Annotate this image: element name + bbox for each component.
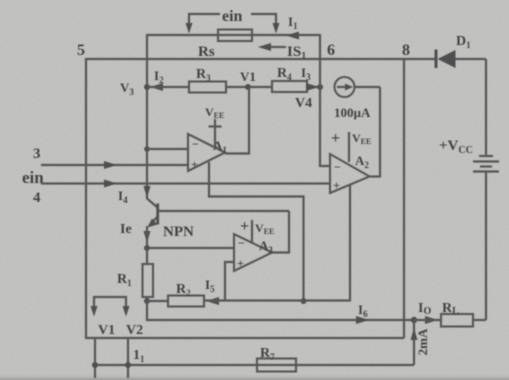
svg-text:ein: ein [22, 168, 44, 187]
svg-text:−: − [238, 236, 245, 250]
wire: V2 measurement column [127, 337, 129, 378]
arrow on terminal 3 line [104, 161, 117, 169]
IS1 annotation arrow [258, 43, 286, 51]
wire: R4 to node at current source [307, 86, 320, 88]
Io node junction dot [411, 317, 417, 323]
wire: node 6 column from Rs corner down to A2 inverting input [320, 34, 330, 166]
svg-text:V1: V1 [240, 69, 256, 84]
svg-text:3: 3 [33, 146, 41, 162]
op-amp A2 [330, 154, 370, 193]
current I4 arrow on V3 column [144, 186, 151, 198]
current I2 arrow [150, 83, 163, 91]
wire: A3 + input tap to I5 line [225, 262, 234, 301]
battery +Vcc [473, 156, 499, 172]
wire: A2 bottom tap down to I5 line [349, 185, 351, 301]
junction dot at R1 bottom [144, 298, 150, 304]
wire: R1 node to R2 [147, 300, 168, 302]
svg-text:8: 8 [402, 42, 410, 59]
svg-text:100µA: 100µA [334, 105, 371, 120]
current source 100uA [335, 77, 355, 97]
wire: R1 bottom stub [146, 297, 148, 301]
svg-text:+: + [333, 178, 340, 192]
svg-text:6: 6 [327, 42, 335, 59]
svg-text:+: + [331, 130, 340, 147]
wire: I6 line from R1 node to Io node [147, 301, 414, 320]
wire: right rail from diode to battery [485, 59, 487, 156]
wire: A1 output up to node V1 [225, 87, 249, 154]
op-amp A3 [234, 234, 272, 271]
resistor R2 [168, 296, 204, 307]
wire: emitter node down to R1 [146, 248, 148, 264]
junction dot on V3 column for A1 inverting input [144, 146, 150, 152]
svg-text:2mA: 2mA [415, 328, 430, 355]
wire: input line from terminal 4 to A2 + input [41, 182, 331, 184]
A1 VEE supply [209, 119, 222, 146]
wire: V3 node to R3 [147, 86, 189, 88]
wire: input line from terminal 3 to A1 + input [41, 164, 188, 166]
resistor R1 [143, 264, 154, 297]
wire: right rail from battery down to RL [485, 172, 487, 321]
resistor R3 [189, 82, 226, 93]
wire: R3 to R4 through node V1 [226, 86, 272, 88]
resistor Rs [218, 30, 252, 42]
arrow on terminal 4 line [104, 180, 117, 188]
resistor R7 [257, 359, 296, 372]
transistor NPN Q1 [147, 199, 159, 228]
wire: R7 line [95, 364, 414, 366]
bottom scan shadow [0, 373, 509, 380]
svg-text:+: + [237, 256, 244, 270]
junction dot where A1 tap meets I5 line [301, 298, 307, 304]
svg-text:−: − [334, 160, 341, 174]
wire: node 8 rail vertical [403, 59, 405, 338]
node V1 junction dot [245, 84, 251, 90]
svg-text:5: 5 [77, 42, 85, 59]
wire: left rail from node 5 down [85, 58, 87, 339]
svg-text:ein: ein [222, 8, 243, 25]
wire: A2 output column vertical down to output tip [370, 87, 381, 177]
resistor RL [441, 314, 473, 327]
wire: I5 line from R2 to A2 bottom tap [204, 299, 351, 301]
resistor R4 [272, 81, 307, 92]
wire: emitter node to A3 inverting input [147, 247, 234, 249]
wire: emitter down to node [146, 226, 148, 248]
node junction dot at column 6 / current source [317, 84, 323, 90]
current I5 arrow [206, 297, 219, 305]
current Ie arrow on emitter wire [144, 231, 151, 243]
current I1 arrow on Rs line [286, 32, 299, 40]
ein annotation bracket over Rs [186, 14, 280, 34]
wire: Io node to RL [414, 319, 441, 321]
svg-text:+: + [191, 157, 198, 171]
wire: RL to right rail [473, 319, 486, 321]
wire: bottom line y=338 from left rail to node 8 rail [86, 337, 404, 339]
node V3 junction dot [144, 84, 150, 90]
wire: Rs loop top line y=35 [147, 34, 320, 36]
current I6 arrow [356, 316, 369, 324]
wire: current source to A2 output column [355, 86, 381, 88]
wire: 2mA branch from R7 line up to Io node [413, 320, 415, 365]
V1 V2 annotation bracket [91, 297, 130, 317]
svg-text:V4: V4 [295, 96, 312, 111]
wire: top main line left of diode (node 5 to D1), y=59 [86, 58, 435, 60]
A3 VEE supply [251, 220, 253, 243]
op-amp A1 [188, 134, 225, 171]
svg-text:V2: V2 [126, 323, 143, 338]
current Io arrow into RL [425, 316, 438, 324]
current I3 arrow [306, 83, 319, 91]
svg-text:NPN: NPN [163, 224, 194, 240]
2mA up arrow [411, 328, 418, 340]
svg-text:−: − [192, 137, 199, 151]
svg-text:Rs: Rs [198, 44, 215, 60]
junction dot V1 column on R7 line [92, 362, 98, 368]
svg-text:V1: V1 [98, 323, 115, 338]
wire: V3 column (Rs left corner down to transistor collector) [146, 34, 148, 199]
diode D1 [435, 50, 456, 69]
A2 VEE supply [348, 132, 350, 162]
wire: top main line right of diode [455, 58, 486, 60]
svg-text:+: + [240, 218, 249, 235]
junction dot V2 column on R7 line [125, 362, 131, 368]
wire: V1 measurement column [94, 337, 96, 378]
svg-text:Ie: Ie [120, 222, 132, 237]
wire: V3 column to A1 inverting input [147, 148, 188, 150]
wire: A1 lower tap down and right [209, 162, 304, 301]
svg-text:4: 4 [33, 190, 41, 206]
wire: transistor base to feedback line [159, 210, 289, 212]
emitter node junction dot [144, 245, 150, 251]
wire: A3 output feedback up [272, 211, 289, 253]
